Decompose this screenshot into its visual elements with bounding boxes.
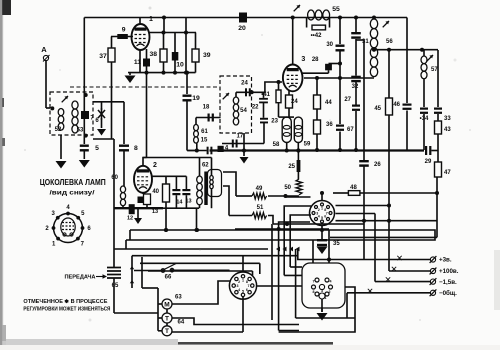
- svg-text:17: 17: [237, 134, 244, 140]
- svg-text:13: 13: [152, 209, 158, 215]
- svg-text:8: 8: [246, 280, 248, 284]
- svg-text:−0бщ.: −0бщ.: [439, 290, 457, 297]
- svg-text:15: 15: [201, 138, 208, 144]
- svg-text:56: 56: [386, 39, 393, 45]
- svg-text:8: 8: [134, 145, 138, 152]
- svg-text:T: T: [165, 315, 169, 322]
- svg-text:51: 51: [257, 205, 264, 211]
- svg-text:25: 25: [288, 164, 295, 170]
- svg-text:28: 28: [312, 57, 319, 63]
- svg-text:46: 46: [393, 102, 400, 108]
- svg-text:49: 49: [256, 186, 263, 192]
- svg-text:4: 4: [238, 288, 240, 292]
- svg-text:6: 6: [246, 288, 248, 292]
- svg-text:11: 11: [134, 59, 141, 66]
- svg-text:48: 48: [350, 185, 357, 191]
- svg-text:67: 67: [347, 127, 354, 133]
- svg-text:8: 8: [324, 208, 326, 212]
- svg-text:38: 38: [149, 51, 157, 58]
- svg-text:14: 14: [176, 200, 183, 206]
- svg-text:2: 2: [329, 290, 331, 294]
- svg-text:5: 5: [95, 145, 99, 152]
- svg-text:•41: •41: [261, 92, 270, 98]
- svg-text:36: 36: [326, 122, 333, 128]
- svg-text:33: 33: [444, 116, 451, 122]
- svg-text:27: 27: [344, 97, 351, 103]
- svg-text:••42: ••42: [311, 33, 323, 39]
- svg-text:8: 8: [313, 290, 315, 294]
- svg-text:3: 3: [301, 56, 305, 63]
- svg-text:61: 61: [201, 129, 208, 135]
- svg-text:5: 5: [321, 216, 323, 220]
- svg-text:1: 1: [321, 207, 323, 211]
- svg-text:47: 47: [444, 170, 451, 176]
- svg-text:M: M: [164, 301, 169, 308]
- svg-text:64: 64: [178, 320, 185, 326]
- svg-text:/вид снизу/: /вид снизу/: [50, 190, 95, 197]
- svg-text:2: 2: [153, 162, 157, 169]
- svg-text:44: 44: [325, 100, 332, 106]
- svg-text:3: 3: [321, 289, 323, 293]
- svg-text:ЦОКОЛЕВКА ЛАМП: ЦОКОЛЕВКА ЛАМП: [40, 177, 106, 187]
- svg-text:50: 50: [284, 185, 291, 191]
- svg-text:−1,5в.: −1,5в.: [439, 279, 457, 286]
- svg-text:22: 22: [252, 105, 259, 111]
- svg-text:24: 24: [291, 99, 298, 105]
- svg-text:+100в.: +100в.: [439, 268, 459, 275]
- svg-text:29: 29: [425, 159, 432, 165]
- svg-text:35: 35: [333, 241, 340, 247]
- svg-text:12: 12: [127, 216, 133, 222]
- svg-text:40: 40: [152, 189, 159, 195]
- svg-text:20: 20: [238, 25, 246, 32]
- svg-text:54: 54: [240, 108, 247, 114]
- svg-text:T: T: [165, 328, 169, 335]
- svg-text:52: 52: [55, 127, 62, 133]
- svg-text:58: 58: [273, 142, 280, 148]
- svg-text:A: A: [41, 45, 47, 54]
- svg-text:19: 19: [192, 95, 200, 102]
- svg-text:60: 60: [111, 175, 118, 181]
- svg-text:30: 30: [326, 42, 333, 48]
- svg-text:62: 62: [202, 163, 209, 169]
- svg-text:37: 37: [99, 53, 107, 60]
- svg-text:5: 5: [242, 289, 244, 293]
- svg-text:1: 1: [325, 296, 327, 300]
- svg-text:53: 53: [77, 128, 84, 134]
- svg-text:ОТМЕЧЕННОЕ ✽ В ПРОЦЕССЕ: ОТМЕЧЕННОЕ ✽ В ПРОЦЕССЕ: [23, 299, 108, 305]
- svg-text:23: 23: [271, 119, 278, 125]
- svg-text:4: 4: [330, 280, 332, 284]
- svg-text:63: 63: [175, 295, 182, 301]
- svg-text:66: 66: [165, 275, 172, 281]
- svg-text:+3в.: +3в.: [439, 257, 452, 264]
- svg-text:59: 59: [304, 142, 311, 148]
- svg-text:ПЕРЕДАЧА: ПЕРЕДАЧА: [65, 274, 96, 280]
- svg-text:55: 55: [332, 6, 340, 13]
- svg-text:26: 26: [374, 162, 381, 168]
- svg-text:РЕГУЛИРОВКИ МОЖЕТ ИЗМЕНЯТЬСЯ: РЕГУЛИРОВКИ МОЖЕТ ИЗМЕНЯТЬСЯ: [23, 306, 110, 312]
- svg-text:10: 10: [176, 62, 184, 69]
- svg-text:43: 43: [444, 127, 451, 133]
- svg-text:9: 9: [122, 27, 126, 34]
- svg-text:4: 4: [318, 215, 320, 219]
- svg-text:18: 18: [203, 105, 210, 111]
- svg-text:39: 39: [203, 52, 211, 59]
- svg-text:45: 45: [374, 106, 381, 112]
- svg-text:65: 65: [112, 283, 119, 289]
- svg-text:1: 1: [242, 278, 244, 282]
- svg-text:1: 1: [149, 16, 153, 23]
- svg-text:7: 7: [313, 280, 315, 284]
- svg-text:24: 24: [241, 81, 248, 87]
- svg-text:7: 7: [248, 284, 250, 288]
